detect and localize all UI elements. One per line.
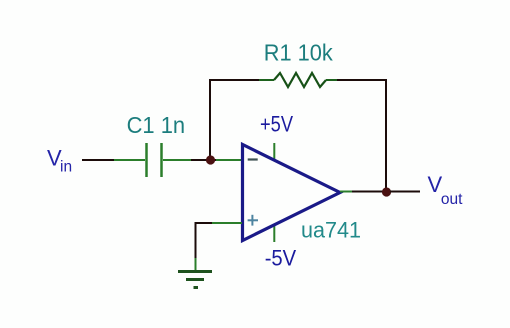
svg-text:C1 1n: C1 1n bbox=[127, 112, 186, 138]
wire node B to Vout bbox=[390, 191, 420, 193]
svg-text:out: out bbox=[441, 191, 463, 208]
label Vout bbox=[428, 172, 464, 208]
svg-text:ua741: ua741 bbox=[301, 218, 361, 243]
wire Vin to C1 bbox=[82, 159, 115, 161]
label Vin bbox=[47, 146, 72, 176]
op-amp plus marker bbox=[248, 215, 258, 226]
capacitor C1 bbox=[114, 143, 192, 177]
node B junction dot bbox=[382, 187, 391, 196]
svg-text:R1 10k: R1 10k bbox=[264, 40, 333, 66]
op-amp minus marker bbox=[248, 158, 258, 160]
svg-text:-5V: -5V bbox=[265, 246, 297, 271]
wire C1 to node A bbox=[191, 159, 208, 161]
svg-text:in: in bbox=[60, 159, 72, 176]
wire output to node B bbox=[352, 191, 384, 193]
wire non-inverting input horizontal bbox=[195, 222, 213, 224]
wire feedback top left bbox=[209, 79, 260, 81]
resistor R1 bbox=[259, 73, 338, 87]
wire node A to op-amp inverting input bbox=[212, 159, 217, 161]
ground bbox=[178, 272, 212, 288]
op-amp top power pin bbox=[273, 143, 275, 161]
wire feedback right vertical bbox=[385, 79, 387, 190]
op-amp U1 triangle bbox=[243, 145, 341, 241]
node A junction dot bbox=[206, 155, 215, 164]
wire feedback left vertical bbox=[209, 79, 211, 158]
op-amp bottom power pin bbox=[273, 224, 275, 242]
svg-text:+5V: +5V bbox=[260, 112, 293, 137]
wire non-inverting to ground vertical bbox=[195, 222, 197, 259]
op-amp output pin bbox=[340, 191, 353, 193]
wire feedback top right bbox=[337, 79, 387, 81]
